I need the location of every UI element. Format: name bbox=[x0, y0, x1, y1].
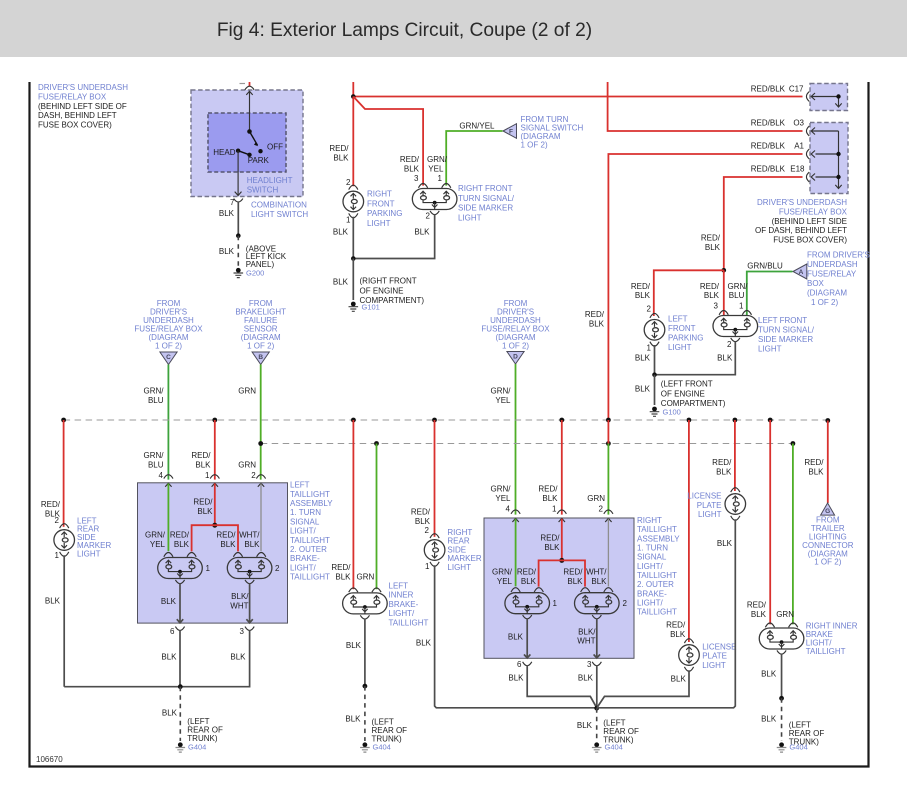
OFF contact bbox=[258, 149, 262, 153]
svg-text:BLK: BLK bbox=[333, 227, 349, 236]
svg-text:YEL: YEL bbox=[428, 164, 444, 173]
svg-text:FRONT: FRONT bbox=[367, 199, 395, 208]
pin 6 connector bbox=[175, 627, 184, 631]
wire BLK dashed to G404 bbox=[179, 687, 181, 741]
taillight bulb 2 (outer brake/taillight) bbox=[227, 553, 272, 584]
node trunk ground joint bbox=[178, 684, 183, 689]
svg-text:BLK: BLK bbox=[635, 291, 651, 300]
wire BLK from right inner brake light bbox=[781, 654, 783, 699]
svg-text:RED/: RED/ bbox=[563, 568, 583, 577]
pin 4 connector bbox=[164, 475, 173, 479]
svg-text:BLK: BLK bbox=[704, 291, 720, 300]
svg-text:RED/: RED/ bbox=[712, 458, 732, 467]
svg-text:BLK: BLK bbox=[717, 353, 733, 362]
svg-text:OFF: OFF bbox=[267, 143, 283, 152]
svg-text:SIDE: SIDE bbox=[447, 545, 466, 554]
wire RED/BLK down to right taillight pin 1 bbox=[561, 420, 563, 515]
node bbox=[779, 696, 784, 701]
wire GRN from bus2 to right inner brake light bbox=[792, 444, 794, 625]
svg-text:C17: C17 bbox=[789, 85, 804, 94]
svg-text:RED/: RED/ bbox=[331, 563, 351, 572]
svg-text:2: 2 bbox=[426, 212, 431, 221]
node bbox=[652, 372, 657, 377]
svg-text:TAILLIGHT: TAILLIGHT bbox=[290, 572, 330, 581]
note: driver's underdash fuse/relay box (top left) bbox=[38, 83, 128, 130]
svg-text:2: 2 bbox=[727, 340, 732, 349]
svg-text:LIGHT: LIGHT bbox=[447, 563, 471, 572]
svg-text:LIGHT: LIGHT bbox=[367, 219, 391, 228]
wire RED/BLK E18 feed down bbox=[724, 177, 803, 270]
svg-text:BLU: BLU bbox=[148, 460, 164, 469]
svg-text:1: 1 bbox=[553, 599, 558, 608]
svg-text:RED/: RED/ bbox=[411, 508, 431, 517]
svg-text:BLK: BLK bbox=[45, 597, 61, 606]
svg-text:BLK: BLK bbox=[414, 227, 430, 236]
svg-text:RED/: RED/ bbox=[585, 310, 605, 319]
svg-text:TAILLIGHT: TAILLIGHT bbox=[637, 571, 677, 580]
wire RED/BLK segment bus1 to bus2 bbox=[607, 420, 609, 444]
svg-text:LICENSE: LICENSE bbox=[702, 642, 736, 651]
svg-text:FRONT: FRONT bbox=[668, 324, 696, 333]
svg-text:BLK: BLK bbox=[761, 670, 777, 679]
svg-text:BLK/: BLK/ bbox=[578, 627, 596, 636]
wire BLK from left front turn bbox=[655, 341, 736, 375]
svg-text:6: 6 bbox=[170, 627, 175, 636]
wire RED/BLK to left front turn pin 3 bbox=[723, 270, 725, 316]
svg-text:BLK: BLK bbox=[635, 353, 651, 362]
wire GRN/BLU from triangle C to left taillight pin 4 bbox=[167, 365, 169, 480]
pin 7 connector bbox=[234, 199, 243, 202]
svg-text:DASH, BEHIND LEFT: DASH, BEHIND LEFT bbox=[38, 111, 117, 120]
bus2 node bbox=[258, 441, 263, 446]
wire stub above switch bbox=[249, 82, 251, 86]
svg-text:DRIVER'S UNDERDASH: DRIVER'S UNDERDASH bbox=[38, 83, 128, 92]
svg-text:3: 3 bbox=[414, 174, 419, 183]
wire BLK from pin 7 bbox=[237, 202, 239, 236]
wire GRN/YEL from triangle D to right taillight pin 4 bbox=[515, 364, 517, 515]
dashed bus line 2 bbox=[261, 443, 793, 445]
svg-text:(LEFT FRONT: (LEFT FRONT bbox=[661, 380, 713, 389]
wire BLK dashed to G404 bbox=[781, 698, 783, 741]
svg-text:G404: G404 bbox=[188, 743, 206, 752]
bus node bbox=[825, 418, 830, 423]
svg-text:6: 6 bbox=[517, 660, 522, 669]
ground G100 bbox=[650, 407, 660, 417]
svg-text:BLK: BLK bbox=[244, 540, 260, 549]
pin 2 connector bbox=[604, 510, 613, 514]
wire BLK dashed to G404 bbox=[364, 686, 366, 741]
svg-text:BLK: BLK bbox=[197, 507, 213, 516]
svg-text:GRN/: GRN/ bbox=[728, 282, 749, 291]
wire GRN from bus2 to left inner brake light bbox=[376, 444, 378, 590]
svg-text:INNER: INNER bbox=[389, 591, 414, 600]
wire RED/BLK down to upper license plate light bbox=[734, 420, 736, 491]
svg-text:(DIAGRAM: (DIAGRAM bbox=[807, 289, 847, 298]
bus2 node bbox=[791, 441, 796, 446]
svg-text:RIGHT: RIGHT bbox=[637, 516, 662, 525]
svg-text:SIDE MARKER: SIDE MARKER bbox=[758, 335, 813, 344]
svg-text:BLK: BLK bbox=[416, 638, 432, 647]
wire BLK dashed to G200 bbox=[237, 236, 239, 267]
fuse/relay box connector O3 A1 E18 bbox=[806, 123, 848, 194]
svg-text:(RIGHT FRONT: (RIGHT FRONT bbox=[360, 277, 417, 286]
bus node bbox=[212, 418, 217, 423]
svg-text:G404: G404 bbox=[789, 743, 807, 752]
svg-text:1 OF 2): 1 OF 2) bbox=[521, 141, 548, 150]
triangle A from driver's underdash fuse/relay box bbox=[793, 264, 807, 279]
svg-text:G: G bbox=[825, 508, 830, 515]
svg-text:2: 2 bbox=[55, 516, 60, 525]
svg-text:1: 1 bbox=[55, 551, 60, 560]
svg-text:BLK: BLK bbox=[591, 577, 607, 586]
svg-text:1. TURN: 1. TURN bbox=[290, 508, 321, 517]
svg-text:BLK: BLK bbox=[219, 247, 235, 256]
svg-text:BLK: BLK bbox=[230, 653, 246, 662]
svg-text:BLK: BLK bbox=[670, 630, 686, 639]
wire RED/BLK A1 feed down bbox=[608, 154, 802, 420]
svg-text:BLU: BLU bbox=[729, 291, 745, 300]
svg-text:RED/: RED/ bbox=[747, 601, 767, 610]
bus node bbox=[768, 418, 773, 423]
svg-text:BLK: BLK bbox=[578, 674, 594, 683]
wire RED/BLK down to right rear side marker bbox=[434, 420, 436, 537]
svg-text:BLK/: BLK/ bbox=[231, 592, 249, 601]
svg-text:LIGHT: LIGHT bbox=[758, 345, 782, 354]
switch pivot bbox=[247, 129, 252, 134]
wire RED/BLK down to left taillight pin 1 bbox=[214, 420, 216, 480]
wire BLK from pin 3 joining bus bbox=[64, 630, 249, 687]
svg-text:OF DASH, BEHIND LEFT: OF DASH, BEHIND LEFT bbox=[755, 226, 847, 235]
svg-text:BRAKE-: BRAKE- bbox=[637, 589, 667, 598]
svg-text:1 OF 2): 1 OF 2) bbox=[155, 342, 182, 351]
svg-text:SIDE MARKER: SIDE MARKER bbox=[458, 204, 513, 213]
bus node bbox=[61, 418, 66, 423]
svg-text:GRN: GRN bbox=[238, 387, 256, 396]
svg-text:(BEHIND LEFT SIDE: (BEHIND LEFT SIDE bbox=[772, 217, 847, 226]
wire RED/BLK branch to left front parking bbox=[654, 270, 724, 316]
node trunk ground joint middle bbox=[594, 706, 599, 711]
node bbox=[236, 233, 241, 238]
svg-text:BLK: BLK bbox=[589, 319, 605, 328]
svg-text:BLK: BLK bbox=[162, 709, 178, 718]
svg-text:4: 4 bbox=[159, 471, 164, 480]
wire RED/BLK down to lower license plate light bbox=[688, 420, 690, 642]
upper license plate light bulb bbox=[725, 488, 746, 521]
bus node bbox=[733, 418, 738, 423]
svg-text:BLK: BLK bbox=[542, 494, 558, 503]
node on E18 feed bbox=[722, 268, 727, 273]
wire BLK from left front parking bbox=[654, 345, 656, 375]
svg-text:RED/: RED/ bbox=[540, 534, 560, 543]
ground G101 bbox=[349, 302, 359, 312]
pin 4 connector bbox=[511, 510, 520, 514]
svg-text:RED/BLK: RED/BLK bbox=[751, 85, 786, 94]
svg-text:1. TURN: 1. TURN bbox=[637, 544, 668, 553]
svg-text:2. OUTER: 2. OUTER bbox=[290, 545, 327, 554]
svg-text:E18: E18 bbox=[790, 165, 805, 174]
svg-text:BRAKE-: BRAKE- bbox=[389, 600, 419, 609]
svg-text:A1: A1 bbox=[794, 142, 804, 151]
headlight switch inner box bbox=[208, 113, 286, 172]
svg-text:GRN/YEL: GRN/YEL bbox=[459, 121, 495, 130]
ground G404 right bbox=[777, 742, 787, 752]
taillight bulb 1 (turn signal/taillight) bbox=[158, 553, 203, 584]
svg-text:BLK: BLK bbox=[808, 467, 824, 476]
svg-text:TAILLIGHT: TAILLIGHT bbox=[290, 490, 330, 499]
svg-text:1: 1 bbox=[647, 344, 652, 353]
bus2 node bbox=[606, 441, 611, 446]
svg-text:RED/: RED/ bbox=[517, 568, 537, 577]
wire RED/BLK down to left inner brake light bbox=[352, 420, 354, 589]
svg-text:7: 7 bbox=[230, 198, 235, 207]
pin 3 connector bbox=[245, 627, 254, 631]
svg-text:LEFT FRONT: LEFT FRONT bbox=[758, 316, 807, 325]
svg-text:FUSE BOX COVER): FUSE BOX COVER) bbox=[38, 121, 112, 130]
wire RED/BLK branch to bulb filaments bbox=[539, 560, 585, 586]
svg-text:BLU: BLU bbox=[148, 396, 164, 405]
svg-text:WHT: WHT bbox=[230, 601, 248, 610]
wire RED/BLK down to right front parking light bbox=[352, 97, 354, 187]
svg-text:PARK: PARK bbox=[248, 156, 270, 165]
svg-text:LIGHT/: LIGHT/ bbox=[290, 527, 317, 536]
wire BLK/WHT bulb2 to pin 3 bbox=[594, 618, 600, 658]
right rear side marker light bulb bbox=[424, 534, 445, 567]
node bbox=[351, 256, 356, 261]
wire BLK from parking light bbox=[352, 217, 354, 259]
svg-text:WHT: WHT bbox=[577, 637, 595, 646]
svg-text:G200: G200 bbox=[246, 269, 264, 278]
svg-text:RIGHT: RIGHT bbox=[447, 528, 472, 537]
note: driver's underdash fuse/relay box (right) bbox=[755, 198, 848, 245]
svg-text:C: C bbox=[166, 354, 171, 361]
svg-text:BLK: BLK bbox=[333, 153, 349, 162]
svg-text:F: F bbox=[509, 129, 513, 136]
svg-text:LIGHT: LIGHT bbox=[668, 343, 692, 352]
triangle D from driver's underdash fuse/relay box bbox=[481, 299, 550, 364]
svg-text:COMBINATION: COMBINATION bbox=[251, 201, 307, 210]
diagram frame bbox=[30, 82, 869, 767]
svg-text:GRN/: GRN/ bbox=[144, 387, 165, 396]
pin 1 entry arrow + wire RED/BLK inside bbox=[559, 518, 565, 522]
svg-text:GRN/: GRN/ bbox=[491, 387, 512, 396]
svg-text:DRIVER'S UNDERDASH: DRIVER'S UNDERDASH bbox=[757, 198, 847, 207]
wire RED/BLK down to right inner brake light bbox=[769, 420, 771, 624]
left taillight assembly box bbox=[138, 483, 288, 623]
svg-text:TAILLIGHT: TAILLIGHT bbox=[806, 647, 846, 656]
svg-text:RIGHT: RIGHT bbox=[367, 190, 392, 199]
svg-text:PLATE: PLATE bbox=[702, 652, 727, 661]
wire BLK from left rear side marker to trunk bus bbox=[63, 555, 65, 686]
svg-text:LICENSE: LICENSE bbox=[687, 492, 721, 501]
svg-text:LIGHT: LIGHT bbox=[458, 213, 482, 222]
fuse/relay box connector C17 bbox=[806, 84, 847, 111]
svg-text:GRN: GRN bbox=[238, 460, 256, 469]
svg-text:BLK: BLK bbox=[761, 715, 777, 724]
wire BLK from upper license plate light to ground node bbox=[597, 519, 736, 708]
pin 3 connector bbox=[592, 662, 601, 666]
wire BLK bulb1 to pin 6 bbox=[524, 618, 530, 658]
svg-text:FUSE/RELAY: FUSE/RELAY bbox=[807, 270, 857, 279]
wire BLK from pin 6 bbox=[179, 630, 181, 687]
svg-text:1: 1 bbox=[552, 505, 557, 514]
svg-text:BLK: BLK bbox=[577, 721, 593, 730]
svg-text:LIGHT: LIGHT bbox=[698, 510, 722, 519]
svg-text:GRN/: GRN/ bbox=[145, 531, 166, 540]
svg-text:RED/: RED/ bbox=[700, 282, 720, 291]
wire GRN/YEL from triangle F bbox=[446, 131, 502, 186]
svg-text:LIGHT/: LIGHT/ bbox=[637, 562, 664, 571]
svg-text:LIGHT/: LIGHT/ bbox=[290, 563, 317, 572]
svg-text:1 OF 2): 1 OF 2) bbox=[814, 558, 841, 567]
pin 1 connector bbox=[210, 475, 219, 479]
svg-text:1: 1 bbox=[739, 301, 744, 310]
svg-text:RED/: RED/ bbox=[400, 155, 420, 164]
right front turn signal / side marker bulb bbox=[412, 184, 457, 215]
svg-text:Fig 4: Exterior Lamps Circuit,: Fig 4: Exterior Lamps Circuit, Coupe (2 … bbox=[217, 20, 592, 41]
svg-text:FUSE/RELAY BOX: FUSE/RELAY BOX bbox=[779, 207, 848, 216]
svg-text:BLK: BLK bbox=[567, 577, 583, 586]
pin 2 entry arrow + wire WHT/BLK inside bbox=[605, 518, 611, 522]
wire RED/BLK down to trailer connector G bbox=[827, 421, 829, 504]
svg-text:1 OF 2): 1 OF 2) bbox=[502, 342, 529, 351]
left rear side marker light bulb bbox=[54, 524, 75, 557]
bus node bbox=[351, 418, 356, 423]
svg-text:ASSEMBLY: ASSEMBLY bbox=[637, 534, 680, 543]
svg-text:BLK: BLK bbox=[521, 577, 537, 586]
svg-text:HEAD: HEAD bbox=[213, 148, 235, 157]
svg-text:RED/: RED/ bbox=[41, 500, 61, 509]
pin 1 connector bbox=[557, 510, 566, 514]
wire BLK from pin 3 to ground node bbox=[596, 665, 598, 708]
svg-text:GRN/: GRN/ bbox=[144, 451, 165, 460]
svg-text:BLK: BLK bbox=[544, 543, 560, 552]
headlight switch outer box (combination light switch) bbox=[191, 90, 303, 197]
svg-text:YEL: YEL bbox=[495, 494, 511, 503]
svg-text:RED/BLK: RED/BLK bbox=[751, 119, 786, 128]
node splice bbox=[559, 558, 564, 563]
svg-text:B: B bbox=[258, 354, 263, 361]
svg-text:RED/: RED/ bbox=[216, 531, 236, 540]
wire BLK to G100 bbox=[654, 375, 656, 405]
svg-text:BLK: BLK bbox=[161, 653, 177, 662]
right inner brake light bulb bbox=[759, 623, 804, 654]
svg-text:2: 2 bbox=[425, 526, 430, 535]
wire BLK bulb1 to pin 6 bbox=[177, 583, 183, 623]
svg-text:FUSE/RELAY BOX: FUSE/RELAY BOX bbox=[38, 92, 107, 101]
ground G404 middle bbox=[592, 742, 602, 752]
wire diagonal to right front turn signal bbox=[353, 97, 423, 186]
svg-text:BLK: BLK bbox=[635, 385, 651, 394]
svg-text:BLK: BLK bbox=[345, 715, 361, 724]
triangle G from trailer lighting connector bbox=[821, 503, 835, 515]
pin 2 entry arrow + wire WHT/BLK inside bbox=[258, 483, 264, 487]
ground G404 inner bbox=[360, 742, 370, 752]
svg-text:PLATE: PLATE bbox=[697, 501, 722, 510]
svg-text:LEFT: LEFT bbox=[668, 315, 688, 324]
wire BLK to G101 bbox=[352, 259, 354, 301]
svg-text:D: D bbox=[513, 354, 518, 361]
svg-text:BLK: BLK bbox=[508, 674, 524, 683]
svg-text:GRN: GRN bbox=[587, 494, 605, 503]
svg-text:GRN/: GRN/ bbox=[427, 155, 448, 164]
taillight bulb 1 bbox=[505, 588, 550, 619]
svg-text:BLK: BLK bbox=[220, 540, 236, 549]
svg-text:LIGHT: LIGHT bbox=[702, 661, 726, 670]
svg-text:2: 2 bbox=[623, 599, 628, 608]
svg-text:1: 1 bbox=[438, 174, 443, 183]
svg-text:TAILLIGHT: TAILLIGHT bbox=[637, 608, 677, 617]
svg-text:LIGHT: LIGHT bbox=[77, 549, 101, 558]
svg-text:GRN/: GRN/ bbox=[491, 485, 512, 494]
svg-text:BLK: BLK bbox=[219, 209, 235, 218]
svg-text:BLK: BLK bbox=[174, 540, 190, 549]
svg-text:BLK: BLK bbox=[705, 243, 721, 252]
svg-text:HEADLIGHT: HEADLIGHT bbox=[247, 176, 293, 185]
svg-text:TURN SIGNAL/: TURN SIGNAL/ bbox=[458, 194, 515, 203]
svg-text:2: 2 bbox=[647, 304, 652, 313]
svg-text:BLK: BLK bbox=[716, 467, 732, 476]
svg-text:RED/BLK: RED/BLK bbox=[751, 165, 786, 174]
svg-text:BLK: BLK bbox=[346, 641, 362, 650]
svg-text:WHT/: WHT/ bbox=[239, 531, 260, 540]
HEAD contact bbox=[236, 149, 240, 153]
svg-text:BLK: BLK bbox=[333, 278, 349, 287]
svg-text:PARKING: PARKING bbox=[367, 209, 402, 218]
svg-text:TURN SIGNAL/: TURN SIGNAL/ bbox=[758, 326, 815, 335]
svg-text:REAR: REAR bbox=[447, 537, 469, 546]
svg-text:4: 4 bbox=[506, 505, 511, 514]
wire RED/BLK to C17 bbox=[353, 96, 802, 98]
svg-text:FROM DRIVER'S: FROM DRIVER'S bbox=[807, 251, 870, 260]
svg-text:RED/: RED/ bbox=[701, 234, 721, 243]
bus node bbox=[687, 418, 692, 423]
wire RED/BLK branch to bulb filaments bbox=[192, 525, 238, 551]
svg-text:2: 2 bbox=[251, 471, 256, 480]
svg-text:GRN/: GRN/ bbox=[492, 568, 513, 577]
right taillight assembly box bbox=[484, 518, 634, 658]
node splice bbox=[212, 523, 217, 528]
svg-text:MARKER: MARKER bbox=[447, 554, 481, 563]
svg-text:3: 3 bbox=[587, 660, 592, 669]
svg-text:RED/: RED/ bbox=[804, 458, 824, 467]
svg-text:RIGHT FRONT: RIGHT FRONT bbox=[458, 184, 513, 193]
left front parking light bulb bbox=[644, 313, 665, 346]
wire BLK dashed to G404 bbox=[596, 708, 598, 741]
svg-text:BLK: BLK bbox=[161, 597, 177, 606]
svg-text:TAILLIGHT: TAILLIGHT bbox=[637, 525, 677, 534]
svg-text:1: 1 bbox=[205, 471, 210, 480]
svg-text:1 OF 2): 1 OF 2) bbox=[247, 342, 274, 351]
svg-text:1: 1 bbox=[346, 216, 351, 225]
svg-text:BRAKE-: BRAKE- bbox=[290, 554, 320, 563]
wire BLK from turn signal bbox=[353, 214, 434, 258]
svg-text:2: 2 bbox=[599, 505, 604, 514]
svg-text:BLK: BLK bbox=[404, 164, 420, 173]
svg-text:PARKING: PARKING bbox=[668, 334, 703, 343]
svg-text:SIGNAL: SIGNAL bbox=[290, 517, 320, 526]
svg-text:YEL: YEL bbox=[497, 577, 513, 586]
wire RED/BLK from top to O3 bbox=[608, 82, 803, 131]
svg-text:BOX: BOX bbox=[807, 279, 825, 288]
wire BLK/WHT bulb2 to pin 3 bbox=[246, 583, 252, 623]
svg-text:G100: G100 bbox=[663, 408, 681, 417]
svg-text:BLK: BLK bbox=[335, 572, 351, 581]
left front turn signal / side marker bulb bbox=[713, 311, 758, 342]
svg-text:BLK: BLK bbox=[717, 539, 733, 548]
left inner brake light bulb bbox=[343, 588, 388, 619]
svg-text:RED/: RED/ bbox=[538, 485, 558, 494]
svg-text:BLK: BLK bbox=[415, 517, 431, 526]
